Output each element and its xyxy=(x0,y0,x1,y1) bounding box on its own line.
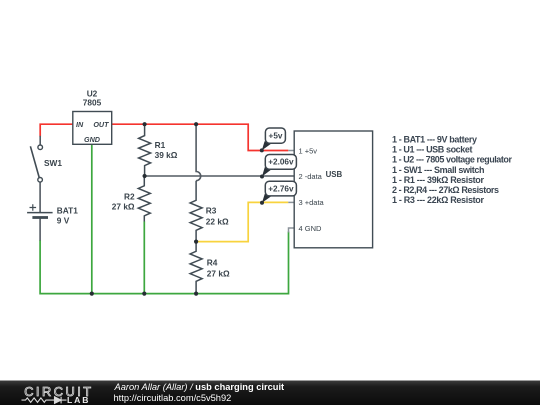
svg-text:1 - R3 --- 22kΩ Resistor: 1 - R3 --- 22kΩ Resistor xyxy=(392,195,484,205)
node dot R1/R2/-data junction xyxy=(143,174,147,178)
footer credit text xyxy=(114,382,285,403)
CircuitLab logo xyxy=(22,384,94,405)
wire -data horizontal xyxy=(145,175,294,177)
resistor R3 xyxy=(190,181,229,242)
switch SW1 xyxy=(30,145,62,182)
voltage callout +2.06v xyxy=(260,155,296,179)
wire green bottom rail xyxy=(40,232,288,294)
voltage callout +2.76v xyxy=(260,181,296,205)
wire yellow +data xyxy=(196,202,288,241)
svg-text:7805: 7805 xyxy=(83,97,102,107)
node dot bottom rail GND xyxy=(90,292,94,296)
svg-text:39 kΩ: 39 kΩ xyxy=(155,150,178,160)
svg-text:2 - R2,R4 --- 27kΩ Resistors: 2 - R2,R4 --- 27kΩ Resistors xyxy=(392,185,499,195)
battery BAT1 xyxy=(27,204,78,225)
wire green below R2 xyxy=(143,222,145,294)
svg-text:27 kΩ: 27 kΩ xyxy=(207,268,230,278)
svg-text:22 kΩ: 22 kΩ xyxy=(206,216,229,226)
node dot bottom rail R2 xyxy=(142,292,146,296)
svg-text:4 GND: 4 GND xyxy=(299,224,323,233)
node dot red rail R3 branch xyxy=(194,122,198,126)
svg-text:9 V: 9 V xyxy=(57,215,70,225)
svg-text:OUT: OUT xyxy=(93,120,109,129)
svg-text:USB: USB xyxy=(326,170,343,179)
resistor R2 xyxy=(112,176,151,222)
svg-text:BAT1: BAT1 xyxy=(57,205,78,215)
wire red from regulator OUT to USB pin 1 xyxy=(112,124,289,150)
svg-text:1 - BAT1 --- 9V battery: 1 - BAT1 --- 9V battery xyxy=(392,135,477,145)
footer bar xyxy=(0,381,540,405)
wire green regulator GND down xyxy=(91,144,93,293)
svg-text:GND: GND xyxy=(84,135,100,144)
svg-text:+2.76v: +2.76v xyxy=(268,184,294,193)
svg-text:2 -data: 2 -data xyxy=(299,172,323,181)
svg-text:+2.06v: +2.06v xyxy=(268,158,294,167)
svg-text:+5v: +5v xyxy=(269,132,283,141)
svg-text:LAB: LAB xyxy=(67,395,90,405)
op-amp U2 7805 regulator box xyxy=(73,89,112,145)
svg-text:1 - U1 --- USB socket: 1 - U1 --- USB socket xyxy=(392,145,473,155)
parts list (BOM) xyxy=(392,135,512,206)
voltage callout +5v xyxy=(260,128,286,152)
wire gray stub USB pin 3 xyxy=(288,201,294,203)
svg-text:http://circuitlab.com/c5v5h92: http://circuitlab.com/c5v5h92 xyxy=(114,393,232,403)
svg-text:R3: R3 xyxy=(206,206,217,216)
wire vertical to R3 with hop xyxy=(196,124,201,181)
USB socket U1 box xyxy=(294,131,372,248)
svg-text:R4: R4 xyxy=(207,258,218,268)
node dot red rail R1 xyxy=(143,122,147,126)
resistor R4 xyxy=(190,242,230,294)
svg-text:3 +data: 3 +data xyxy=(299,198,325,207)
wire gray stub USB pin 4 xyxy=(289,228,295,233)
node dot bottom rail R4 xyxy=(194,292,198,296)
wire gray switch to battery xyxy=(39,182,41,212)
svg-text:1 - SW1 --- Small switch: 1 - SW1 --- Small switch xyxy=(392,165,485,175)
wire red from switch to regulator IN xyxy=(40,124,73,136)
svg-text:1 - R1 --- 39kΩ Resistor: 1 - R1 --- 39kΩ Resistor xyxy=(392,175,484,185)
wire gray stub USB pin 1 xyxy=(288,150,294,152)
svg-text:27 kΩ: 27 kΩ xyxy=(112,202,135,212)
resistor R1 xyxy=(139,124,178,176)
svg-text:R2: R2 xyxy=(124,192,135,202)
svg-text:1 +5v: 1 +5v xyxy=(299,146,318,155)
wire gray battery bottom lead xyxy=(39,219,41,241)
svg-text:1 - U2 --- 7805 voltage regula: 1 - U2 --- 7805 voltage regulator xyxy=(392,155,512,165)
node dot R3/R4/yellow junction xyxy=(194,240,198,244)
svg-text:SW1: SW1 xyxy=(44,158,62,168)
svg-text:IN: IN xyxy=(76,120,84,129)
svg-text:Aaron Allar (Allar) / usb char: Aaron Allar (Allar) / usb charging circu… xyxy=(114,382,285,392)
wire gray stub switch top terminal xyxy=(39,136,41,145)
svg-text:R1: R1 xyxy=(155,140,166,150)
